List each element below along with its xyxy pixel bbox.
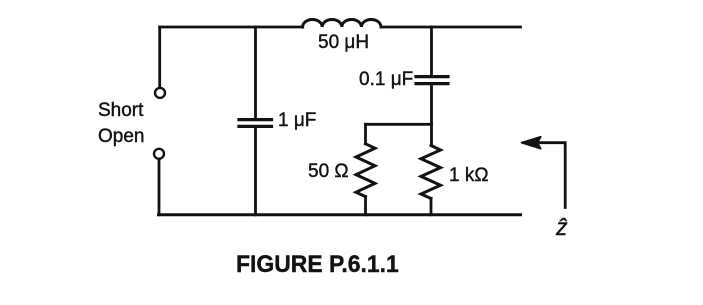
wire right branch below C2	[430, 85, 433, 146]
wire left vertical to top terminal	[158, 27, 161, 87]
capacitor C1 1 uF plates	[239, 118, 272, 121]
node top terminal (open circle)	[155, 88, 165, 98]
wire 50 ohm branch upper lead	[364, 124, 367, 144]
wire top rail right segment	[381, 26, 521, 29]
caption FIGURE P.6.1.1	[236, 251, 399, 279]
label Open	[98, 126, 144, 148]
resistor R2 1 kohm zigzag	[421, 146, 441, 199]
resistor R1 50 ohm zigzag	[356, 144, 375, 197]
capacitor C2 0.1 uF plates	[416, 75, 448, 78]
wire right branch upper (to C2)	[430, 27, 433, 75]
wire parallel tie bar	[366, 123, 432, 126]
wire top rail left segment	[160, 26, 303, 29]
wire middle branch lower	[254, 128, 257, 215]
wire 1 kohm branch lower lead	[430, 199, 433, 215]
label 0.1 uF	[359, 69, 413, 91]
wire 50 ohm branch lower lead	[364, 197, 367, 215]
label 1 kohm	[449, 165, 489, 187]
node bottom terminal (open circle)	[154, 149, 164, 159]
label Short	[98, 100, 143, 122]
arrow impedance pointer shaft	[538, 143, 565, 208]
wire middle branch upper (to C1)	[254, 27, 257, 118]
arrow impedance pointer head	[522, 137, 541, 149]
wire bottom terminal to bottom rail	[158, 159, 161, 215]
label 50 uH	[318, 32, 369, 54]
label 1 uF	[278, 110, 316, 132]
inductor L1 50 uH	[303, 19, 381, 27]
label 50 ohm	[308, 161, 349, 183]
label Z-hat	[556, 214, 568, 240]
wire bottom rail	[159, 213, 521, 216]
